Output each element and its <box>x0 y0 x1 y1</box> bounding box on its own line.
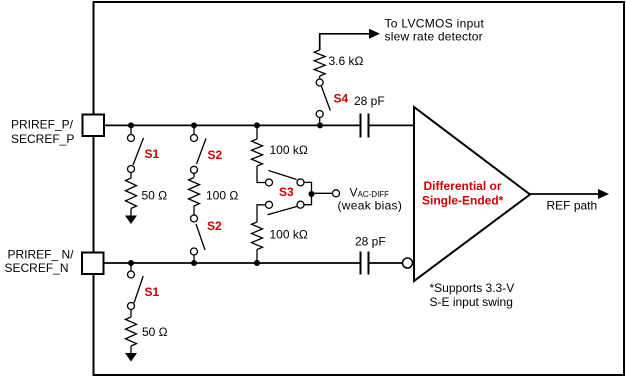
wire: lower S3 elbow to lower 100k <box>257 205 266 222</box>
switch S3 (upper) <box>266 171 305 187</box>
svg-text:S4: S4 <box>334 92 349 106</box>
svg-text:SECREF_N: SECREF_N <box>5 261 69 275</box>
pin PRIREF_P/SECREF_P <box>83 115 105 137</box>
svg-text:PRIREF_ N/: PRIREF_ N/ <box>8 248 75 262</box>
arrow to LVCMOS slew rate detector <box>369 29 380 39</box>
wire: lower S3 to center node <box>304 194 312 205</box>
wire: S2 to resistor <box>193 173 195 177</box>
svg-text:SECREF_P: SECREF_P <box>11 132 74 146</box>
arrow to ground (bottom S1) <box>125 353 137 362</box>
capacitor 28 pF (top) <box>361 114 369 138</box>
node: bottom rail junction at 100k <box>254 260 260 266</box>
wire: resistor to arrow <box>130 209 132 217</box>
label VAC-DIFF (weak bias) <box>338 186 403 213</box>
svg-text:Single-Ended*: Single-Ended* <box>422 194 504 208</box>
resistor 50 ohm (bottom) <box>126 317 137 346</box>
resistor 100 kohm (upper) <box>252 139 263 166</box>
wire: resistor to upper S3 elbow <box>257 166 266 183</box>
wire: bottom rail from N pin to bottom capacitor <box>105 262 360 264</box>
note: Supports 3.3-V S-E input swing <box>430 281 515 309</box>
pin PRIREF_N/SECREF_N <box>82 253 104 275</box>
wire: S4 to 3.6k resistor <box>319 76 321 79</box>
switch S3 (lower) <box>266 201 305 215</box>
op-amp U1 triangle <box>414 107 530 281</box>
wire: top rail from P pin to top capacitor <box>105 124 360 126</box>
node: top rail junction at S1 <box>128 122 134 128</box>
wire: bottom S1 to resistor <box>130 310 132 318</box>
svg-text:50 Ω: 50 Ω <box>142 325 168 339</box>
svg-text:S2: S2 <box>207 219 222 233</box>
wire: top rail to S2 <box>193 125 195 134</box>
switch S2 (lower) <box>191 215 206 255</box>
svg-text:100 kΩ: 100 kΩ <box>270 143 308 157</box>
switch S4 <box>316 79 330 118</box>
wire: lower 100k to bottom rail <box>256 250 258 264</box>
svg-text:To LVCMOS input: To LVCMOS input <box>385 17 485 31</box>
amplifier inverting-input bubble <box>403 258 413 268</box>
svg-text:50 Ω: 50 Ω <box>142 189 168 203</box>
wire: top rail to S4 <box>319 118 321 126</box>
svg-text:S3: S3 <box>279 185 294 199</box>
node: top rail junction at 100k <box>254 122 260 128</box>
node: top rail junction at S2 <box>191 122 197 128</box>
svg-text:100 kΩ: 100 kΩ <box>270 228 308 242</box>
wire: resistor to lower S2 <box>193 206 195 215</box>
node: top rail junction at S4 <box>317 122 323 128</box>
resistor 50 ohm (top) <box>126 178 137 209</box>
svg-text:REF path: REF path <box>547 199 598 213</box>
svg-text:Differential or: Differential or <box>424 179 502 193</box>
wire: bottom rail to S1 <box>130 263 132 271</box>
resistor 100 kohm (lower) <box>252 222 263 250</box>
label: Differential or Single-Ended* <box>422 179 504 208</box>
svg-text:100 Ω: 100 Ω <box>206 189 238 203</box>
wire: top rail to S1 <box>130 125 132 134</box>
label: To LVCMOS input slew rate detector <box>385 17 485 44</box>
wire: amplifier output <box>530 193 600 195</box>
wire: upper S3 to center node <box>304 182 312 194</box>
node: bottom rail junction at S2 <box>191 260 197 266</box>
svg-text:S1: S1 <box>145 147 160 161</box>
svg-text:28 pF: 28 pF <box>355 235 386 249</box>
resistor 100 ohm <box>189 178 200 207</box>
svg-text:PRIREF_P/: PRIREF_P/ <box>11 118 74 132</box>
node: bottom rail junction at S1 <box>128 260 134 266</box>
arrow to ground (top S1) <box>125 216 137 225</box>
svg-text:*Supports 3.3-V: *Supports 3.3-V <box>430 281 515 295</box>
svg-text:S2: S2 <box>208 148 223 162</box>
wire: lower S2 to bottom rail <box>193 255 195 263</box>
svg-text:slew rate detector: slew rate detector <box>385 30 483 44</box>
wire: 3.6k up and to slew-rate arrow <box>320 34 371 50</box>
terminal VAC-DIFF <box>333 190 340 197</box>
svg-text:28 pF: 28 pF <box>354 94 385 108</box>
switch S1 (top) <box>128 135 144 173</box>
switch S1 (bottom) <box>128 271 144 310</box>
node: S3 center junction <box>309 191 315 197</box>
resistor 3.6 kohm <box>314 50 325 76</box>
svg-text:S-E input swing: S-E input swing <box>430 295 513 309</box>
svg-text:(weak bias): (weak bias) <box>338 199 403 213</box>
wire: bottom capacitor to amplifier bubble <box>370 262 403 264</box>
switch S2 (upper) <box>191 135 207 174</box>
wire: top rail to 100k resistor <box>256 125 258 139</box>
arrow: REF path output <box>598 189 609 199</box>
capacitor 28 pF (bottom) <box>361 252 369 275</box>
wire: center node to VAC-DIFF terminal <box>312 192 333 194</box>
svg-text:S1: S1 <box>145 285 160 299</box>
svg-text:3.6 kΩ: 3.6 kΩ <box>329 54 364 68</box>
wire: S1 to resistor <box>130 173 132 179</box>
wire: top capacitor to amplifier input <box>370 124 415 126</box>
wire: resistor to arrow (bottom) <box>130 346 132 353</box>
